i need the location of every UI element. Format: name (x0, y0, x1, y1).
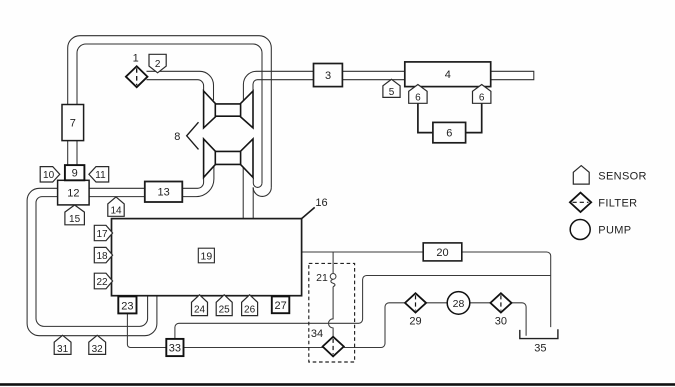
svg-text:5: 5 (389, 87, 395, 98)
wire: exhaust outlet pipe from box 4 with end cap (491, 71, 534, 79)
sensor 18 (94, 247, 112, 262)
wire: air intake pipe from filter 1 to top compressor inlet (147, 71, 214, 100)
svg-text:FILTER: FILTER (598, 198, 637, 210)
svg-text:7: 7 (70, 118, 76, 130)
wire: line from filter 34 right, up to pump suction line (344, 303, 405, 348)
page footer rule (0, 383, 675, 386)
wire: EGR loop pipe over the top from turbine tap to cooler 7 (68, 36, 272, 197)
sensor 10 (40, 167, 60, 182)
svg-text:24: 24 (194, 305, 206, 316)
arrow pointer for label 8 (187, 122, 199, 149)
turbocharger 8 top turbine wheel (241, 91, 253, 128)
sensor 14 (108, 197, 124, 217)
wire: charge-air loop from mixer 12 down the left side into engine bottom (27, 188, 157, 335)
svg-text:31: 31 (57, 344, 69, 355)
gauge 21 squiggle (331, 279, 335, 286)
svg-text:33: 33 (169, 343, 181, 355)
wire: connector from sensor 6 left down to box 6 (418, 103, 433, 132)
svg-text:21: 21 (316, 272, 328, 284)
svg-text:30: 30 (495, 316, 507, 328)
svg-text:25: 25 (219, 305, 231, 316)
sensor 5 (383, 79, 400, 98)
sensor 31 (54, 335, 71, 355)
wire: connector from sensor 6 right down to box 6 (466, 103, 482, 132)
dashed enclosure around gauge 21 and filter 34 (309, 263, 355, 362)
svg-text:27: 27 (274, 300, 286, 312)
wire: line from filter 30 down into tank 35 (512, 303, 527, 336)
filter 34 (311, 328, 344, 356)
box 13 (145, 182, 183, 203)
svg-text:4: 4 (445, 69, 451, 81)
wire: charge pipe from mixer 12 to box 13 (89, 188, 145, 196)
box 23 (118, 296, 136, 313)
sensor 22 (94, 273, 112, 289)
svg-text:32: 32 (92, 344, 104, 355)
sensor 17 (94, 225, 112, 240)
wire: line pump 28 to filter 30 (470, 302, 491, 304)
engine callout leader line for label 16 (302, 207, 315, 218)
sensor 25 (216, 295, 232, 316)
gauge 21 circle (330, 274, 336, 280)
wire: suction line from box 33 to filter 34 (184, 347, 323, 349)
sensor 6 left under box 4 (409, 85, 427, 104)
svg-text:8: 8 (174, 131, 180, 143)
wire: pipe from cooler 7 down to valve box 9 (68, 141, 77, 166)
svg-text:26: 26 (244, 305, 256, 316)
svg-text:3: 3 (325, 70, 331, 82)
wire: exhaust pipe from turbine outlet up and right to box 3 (243, 71, 313, 100)
svg-text:20: 20 (436, 247, 448, 259)
svg-text:15: 15 (69, 214, 81, 225)
svg-text:12: 12 (67, 188, 79, 200)
sensor 32 (89, 335, 106, 355)
svg-text:35: 35 (534, 343, 546, 355)
turbocharger 8 top shaft (215, 104, 240, 116)
svg-text:14: 14 (110, 206, 122, 217)
filter 30 (490, 293, 511, 328)
wire: oil line from box 20 right, down to tank 35 (462, 252, 551, 327)
pump 28 (447, 292, 470, 315)
turbocharger 8 bottom turbine wheel (241, 139, 253, 178)
box 9 EGR valve (65, 165, 85, 180)
sensor 6 right under box 4 (473, 85, 491, 104)
box 4 (405, 62, 491, 87)
sensor 26 (242, 295, 258, 316)
svg-text:17: 17 (96, 229, 108, 240)
wire: line filter 29 to pump 28 (426, 302, 447, 304)
sensor 11 (89, 167, 109, 182)
wire: exhaust pipe from box 3 to box 4 (342, 71, 404, 79)
box 7 EGR cooler (62, 105, 84, 141)
legend sensor symbol (573, 166, 589, 185)
svg-text:6: 6 (479, 92, 485, 103)
svg-text:9: 9 (72, 168, 78, 180)
tank 35 (520, 329, 558, 354)
legend pump symbol (570, 220, 590, 240)
svg-text:SENSOR: SENSOR (598, 170, 647, 182)
box 12 EGR mixer (58, 180, 90, 205)
box 20 (423, 243, 462, 261)
svg-text:11: 11 (95, 170, 106, 181)
svg-text:18: 18 (96, 251, 108, 262)
label box 19 inside engine (198, 248, 214, 263)
box 27 (272, 296, 290, 313)
filter 29 (405, 293, 426, 328)
wire: engine exhaust manifold pipe up to bottom turbine (243, 167, 253, 218)
svg-text:34: 34 (311, 328, 323, 340)
svg-text:6: 6 (446, 128, 452, 140)
wire: oil gallery line from engine right to box 20 (302, 251, 424, 253)
sensor 15 (65, 205, 85, 225)
turbocharger 8 top compressor wheel (204, 91, 216, 128)
wire: dipstick tube down to filter 34 with hop over crossing line (329, 287, 334, 337)
wire: pipe from box 13 up to bottom compressor (182, 166, 214, 196)
svg-text:29: 29 (409, 316, 421, 328)
filter 1 (126, 52, 148, 87)
svg-text:23: 23 (121, 300, 133, 312)
svg-text:19: 19 (201, 250, 213, 262)
svg-text:28: 28 (453, 298, 465, 310)
svg-text:2: 2 (155, 59, 161, 70)
wire: line from box 33 top, right and up to tank drop line (175, 276, 551, 339)
svg-text:22: 22 (96, 277, 108, 288)
turbocharger 8 bottom shaft (215, 151, 240, 164)
box 3 (314, 64, 343, 87)
engine block 16 (112, 219, 302, 296)
svg-text:1: 1 (133, 52, 139, 64)
turbocharger 8 bottom compressor wheel (204, 139, 216, 178)
svg-text:6: 6 (415, 92, 421, 103)
box 6 (433, 122, 466, 142)
legend filter symbol (570, 193, 591, 212)
sensor 24 (192, 295, 208, 316)
svg-text:PUMP: PUMP (598, 224, 631, 236)
wire: line from box 23 bottom down and right to box 33 (127, 314, 166, 348)
wire: dipstick branch line down from gallery through gauge 21 (332, 252, 334, 273)
sensor 2 (149, 54, 166, 73)
svg-text:10: 10 (43, 170, 55, 181)
svg-text:16: 16 (315, 197, 327, 209)
box 33 (166, 339, 183, 356)
svg-text:13: 13 (157, 187, 169, 199)
